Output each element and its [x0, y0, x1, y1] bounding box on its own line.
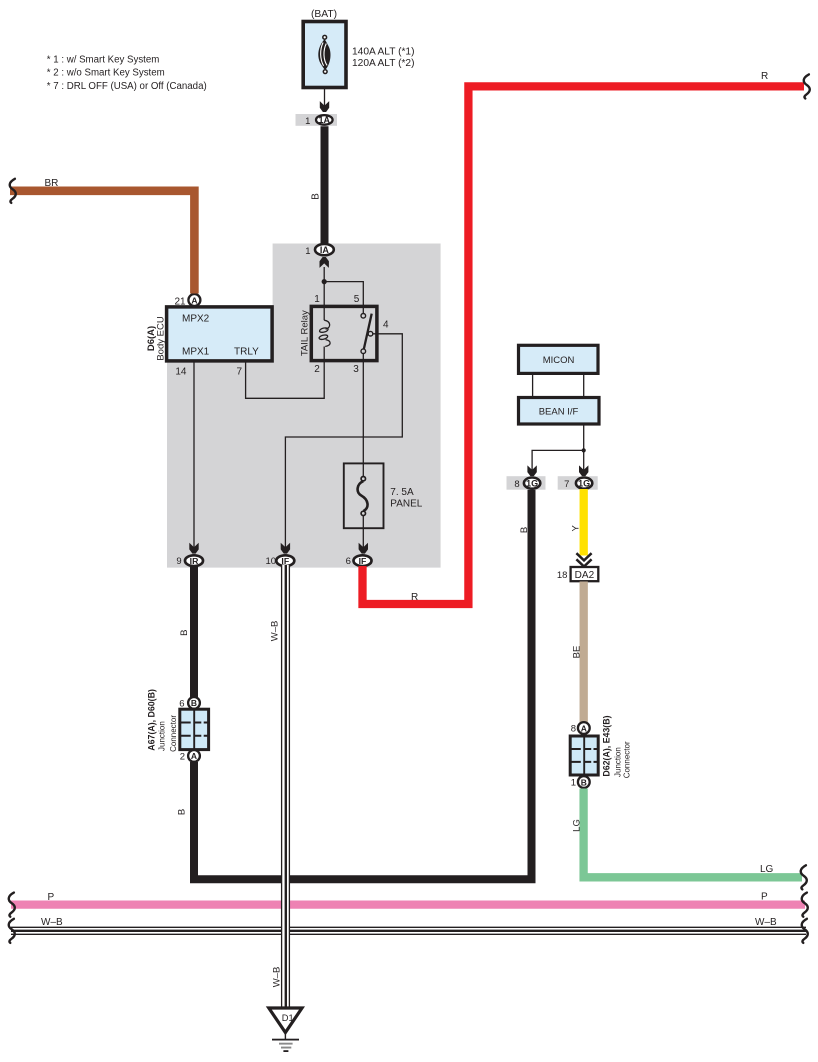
fusible link element 140A/120A: [318, 35, 330, 73]
svg-text:4: 4: [383, 320, 389, 331]
svg-text:21: 21: [174, 297, 186, 308]
svg-text:7: 7: [564, 479, 569, 490]
wire BAT box to connector 1A: [324, 88, 326, 106]
label R top: [761, 71, 768, 82]
BEAN I/F box: [519, 398, 600, 425]
wire node to relay pin 5: [324, 282, 363, 307]
connector 9 IR: [176, 555, 203, 567]
label MICON: [543, 355, 575, 366]
svg-text:2: 2: [314, 364, 320, 375]
svg-text:BR: BR: [45, 178, 59, 189]
junction connector D62(A), E43(B) grid: [570, 736, 598, 775]
wire fuse to 6 IF: [362, 516, 364, 548]
svg-text:5: 5: [354, 294, 360, 305]
wires MICON to BEAN I/F: [533, 373, 584, 397]
connector IA: [305, 244, 334, 257]
svg-text:* 1 : w/ Smart Key System: * 1 : w/ Smart Key System: [47, 55, 160, 66]
arrow into IR: [189, 543, 198, 554]
svg-text:IR: IR: [190, 556, 199, 566]
label B lower: [177, 809, 188, 815]
svg-text:* 7 : DRL OFF (USA) or Off (Ca: * 7 : DRL OFF (USA) or Off (Canada): [47, 81, 207, 92]
wire W-B vertical from 10 IF to ground: [281, 565, 290, 1008]
label P right: [761, 892, 768, 903]
pin 1 label: [314, 294, 320, 305]
svg-text:1G: 1G: [526, 479, 538, 489]
label Y: [571, 524, 582, 531]
arrow up into IA: [320, 257, 329, 268]
svg-text:1: 1: [314, 294, 320, 305]
label (BAT): [311, 9, 337, 20]
continuation mark P right: [802, 893, 808, 917]
connector A pin8 (D62/E43): [571, 722, 590, 734]
svg-text:1: 1: [305, 246, 310, 257]
bus wire W-B horizontal: [11, 926, 806, 935]
label B: [311, 193, 322, 200]
pin 5 label: [354, 294, 360, 305]
MICON box: [519, 345, 599, 373]
svg-text:3: 3: [353, 364, 359, 375]
wire Y yellow: [580, 489, 588, 556]
label A67(A), D60(B) Junction Connector: [146, 689, 178, 752]
pin 7 label: [236, 367, 242, 378]
svg-text:W–B: W–B: [755, 917, 777, 928]
svg-text:LG: LG: [572, 819, 583, 832]
arrow into 10 IF: [281, 543, 290, 554]
pin 4 label: [383, 320, 389, 331]
connector 6 IF: [346, 555, 372, 567]
pin 14 label: [175, 367, 187, 378]
svg-text:R: R: [761, 71, 768, 82]
continuation mark P left: [9, 893, 15, 917]
svg-text:A: A: [191, 751, 197, 761]
value label 140A ALT / 120A ALT: [352, 47, 415, 69]
label MPX1: [182, 347, 210, 358]
fuse element: [358, 477, 368, 516]
chevrons into DA2: [576, 553, 591, 566]
wire LG green: [584, 789, 802, 878]
wire relay pin4 to IF: [285, 334, 402, 549]
svg-text:MPX2: MPX2: [182, 314, 210, 325]
wire pin14 to IR: [193, 361, 195, 549]
svg-text:P: P: [761, 892, 768, 903]
connector B pin6 (A67/D60): [179, 697, 200, 709]
svg-text:* 2 : w/o Smart Key System: * 2 : w/o Smart Key System: [47, 68, 165, 79]
svg-text:7: 7: [236, 367, 242, 378]
svg-text:A: A: [581, 723, 587, 733]
label TRLY: [234, 347, 259, 358]
svg-text:Junction: Junction: [157, 721, 166, 751]
label MPX2: [182, 314, 210, 325]
label LG right: [760, 864, 774, 875]
bus wire P pink: [11, 900, 805, 908]
label D6(A) Body ECU: [146, 316, 167, 360]
fusible link box BAT: [303, 22, 346, 88]
continuation mark R right: [804, 74, 810, 98]
arrow into 7 1G: [579, 465, 588, 476]
wire branch to 8 1G: [532, 450, 584, 470]
svg-text:1G: 1G: [578, 479, 590, 489]
arrow into 6 IF: [359, 543, 368, 554]
note *1 *2 *7 legend: [47, 55, 207, 92]
arrow into 1A: [320, 101, 329, 112]
wire B (1A to IA): [321, 126, 329, 243]
wire R red main: [363, 86, 805, 604]
svg-text:D62(A), E43(B): D62(A), E43(B): [602, 715, 612, 776]
svg-text:B: B: [191, 698, 197, 708]
svg-text:MPX1: MPX1: [182, 347, 210, 358]
node junction dot: [322, 279, 327, 284]
label LG vertical: [572, 819, 583, 832]
label B: [179, 630, 190, 636]
label W-B lower: [272, 967, 283, 988]
arrow into 8 1G: [527, 465, 536, 476]
svg-text:6: 6: [346, 556, 351, 567]
label W-B upper: [270, 621, 281, 642]
svg-text:120A ALT (*2): 120A ALT (*2): [352, 58, 415, 69]
wire relay pin3 to fuse: [362, 361, 364, 477]
svg-text:R: R: [411, 592, 418, 603]
label D62(A), E43(B) Junction Connector: [602, 715, 632, 778]
svg-text:B: B: [581, 777, 587, 787]
relay coil: [319, 306, 330, 360]
svg-text:Connector: Connector: [169, 715, 178, 752]
svg-text:B: B: [311, 193, 322, 200]
junction block shaded area: [167, 244, 441, 568]
connector 18 DA2: [557, 567, 598, 581]
svg-text:PANEL: PANEL: [390, 499, 422, 510]
svg-text:BE: BE: [571, 646, 582, 659]
continuation mark LG right: [801, 865, 807, 889]
svg-text:Connector: Connector: [623, 741, 632, 778]
svg-text:Y: Y: [571, 524, 582, 531]
pin 3 label: [353, 364, 359, 375]
svg-text:(BAT): (BAT): [311, 9, 337, 20]
svg-text:8: 8: [514, 479, 519, 490]
svg-text:14: 14: [175, 367, 187, 378]
relay box TAIL Relay: [311, 306, 377, 360]
svg-text:1: 1: [571, 778, 576, 789]
svg-text:8: 8: [571, 724, 576, 735]
wire TRLY pin7 to relay coil pin2: [246, 361, 325, 399]
wire BEAN I/F to node: [583, 424, 585, 471]
label BEAN I/F: [539, 406, 579, 417]
svg-text:Junction: Junction: [614, 747, 623, 777]
wire B junction connector to 1G (bottom run): [194, 490, 532, 880]
svg-text:9: 9: [176, 556, 181, 567]
ground D1: [269, 1008, 302, 1052]
svg-text:B: B: [177, 809, 188, 815]
node dot: [582, 448, 586, 452]
svg-text:BEAN I/F: BEAN I/F: [539, 406, 579, 417]
wire IA to node: [323, 267, 325, 306]
svg-text:D1: D1: [282, 1013, 294, 1023]
svg-text:P: P: [48, 892, 55, 903]
relay switch contacts: [361, 306, 373, 360]
connector 7 1G: [558, 476, 598, 490]
svg-text:B: B: [179, 630, 190, 636]
svg-text:Body ECU: Body ECU: [156, 316, 167, 360]
connector B pin1 (D62/E43): [571, 776, 590, 788]
wire BE beige: [580, 582, 588, 724]
fuse box 7.5A PANEL: [344, 463, 384, 528]
wire B from IR to junction connector: [190, 566, 198, 698]
continuation mark BR left: [10, 179, 16, 203]
svg-text:A: A: [191, 295, 197, 305]
label W-B right: [755, 917, 777, 928]
svg-text:7. 5A: 7. 5A: [390, 487, 414, 498]
label P left: [48, 892, 55, 903]
wire BR brown: [10, 191, 194, 294]
svg-text:10: 10: [266, 556, 277, 567]
svg-text:140A ALT (*1): 140A ALT (*1): [352, 47, 415, 58]
svg-text:18: 18: [557, 570, 568, 581]
svg-text:1A: 1A: [319, 115, 331, 125]
body ECU box: [167, 307, 273, 361]
svg-text:MICON: MICON: [543, 355, 575, 366]
label BE: [571, 646, 582, 659]
label W-B left: [41, 917, 63, 928]
svg-text:DA2: DA2: [575, 570, 595, 581]
continuation mark W-B left: [9, 919, 15, 943]
connector 1A: [296, 114, 338, 127]
svg-text:W–B: W–B: [41, 917, 63, 928]
svg-text:W–B: W–B: [272, 967, 283, 988]
svg-text:A67(A), D60(B): A67(A), D60(B): [146, 689, 156, 751]
svg-text:IA: IA: [320, 245, 330, 255]
label R bottom: [411, 592, 418, 603]
connector 10 IF: [266, 555, 295, 567]
label 7.5A PANEL: [390, 487, 422, 510]
svg-text:2: 2: [180, 751, 185, 762]
svg-text:TRLY: TRLY: [234, 347, 259, 358]
connector 8 1G: [507, 476, 546, 490]
svg-text:B: B: [519, 527, 530, 533]
label BR: [45, 178, 59, 189]
connector A pin2 (A67/D60): [180, 750, 200, 762]
svg-text:W–B: W–B: [270, 621, 281, 642]
svg-text:TAIL Relay: TAIL Relay: [300, 310, 311, 356]
svg-text:1: 1: [305, 116, 310, 127]
pin 21 connector A: [174, 294, 200, 308]
pin 2 label: [314, 364, 320, 375]
junction connector A67(A), D60(B) grid: [180, 709, 209, 749]
label B right riser: [519, 527, 530, 533]
svg-text:LG: LG: [760, 864, 774, 875]
svg-text:IF: IF: [281, 556, 289, 566]
continuation mark W-B right: [802, 919, 808, 943]
svg-text:IF: IF: [359, 556, 367, 566]
label TAIL Relay: [300, 310, 311, 356]
